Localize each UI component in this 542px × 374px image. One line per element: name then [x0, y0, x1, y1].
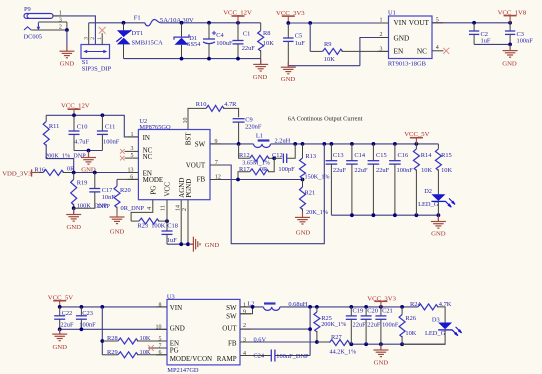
- C4 plus sign: [212, 32, 216, 34]
- junction R28 riser: [100, 339, 104, 343]
- junction R14 VCC_5V: [415, 142, 419, 146]
- junction OUT riser: [308, 305, 312, 309]
- junction C16 top: [393, 142, 397, 146]
- junction VOUT loop top: [322, 142, 326, 146]
- svg-text:C16: C16: [398, 152, 409, 159]
- junction C14 top: [350, 142, 354, 146]
- svg-text:R13: R13: [305, 153, 316, 160]
- svg-text:RT9013-18GB: RT9013-18GB: [388, 61, 426, 68]
- svg-text:6A Continous Output Current: 6A Continous Output Current: [288, 115, 363, 122]
- svg-text:1uF: 1uF: [481, 38, 491, 45]
- U3 PG pin7 stub: [148, 347, 167, 349]
- junction PGND: [186, 242, 190, 246]
- svg-text:0R_DNP: 0R_DNP: [121, 205, 145, 212]
- wire U1 ground rail: [288, 65, 360, 67]
- junction P9 pin2-pin3: [65, 28, 69, 32]
- svg-text:GND: GND: [60, 60, 75, 67]
- junction C13 top: [330, 142, 334, 146]
- wire U2 SW to L1: [210, 143, 254, 145]
- svg-text:EN: EN: [394, 47, 404, 56]
- svg-text:NC: NC: [143, 153, 153, 161]
- svg-text:P9: P9: [24, 6, 31, 13]
- svg-text:C1: C1: [243, 30, 250, 37]
- svg-text:22uF: 22uF: [376, 167, 390, 174]
- junction C15 top: [372, 142, 376, 146]
- svg-text:C22: C22: [62, 310, 73, 317]
- capacitor C24 100nF DNP: [270, 350, 272, 362]
- LED D3 LED_G: [438, 323, 452, 330]
- svg-text:GND: GND: [170, 325, 185, 333]
- P9 pin2 sleeve zigzag: [24, 27, 31, 30]
- svg-text:R29: R29: [107, 349, 118, 356]
- capacitor C4 100uF polarized: [208, 23, 210, 39]
- wire OUT riser to C24: [309, 307, 311, 356]
- svg-text:PGND: PGND: [185, 179, 193, 198]
- resistor R24 4.7K: [418, 304, 438, 310]
- svg-text:DT1: DT1: [132, 30, 144, 37]
- wire P9 pin1 to S1 pin2: [53, 16, 95, 45]
- junction C19 top: [349, 305, 353, 309]
- svg-text:4.7R: 4.7R: [224, 101, 237, 108]
- resistor R20 0R DNP: [116, 179, 118, 186]
- no-ERC X on U2 pin3: [120, 149, 125, 154]
- junction SW pins: [251, 305, 255, 309]
- wire U2 PG pin4 to R23: [131, 200, 153, 221]
- svg-text:L1: L1: [256, 132, 263, 139]
- svg-text:MODE/VCON: MODE/VCON: [170, 355, 212, 363]
- svg-text:GND: GND: [431, 231, 446, 238]
- svg-text:10K: 10K: [263, 40, 274, 47]
- wire input ground rail: [124, 58, 261, 60]
- svg-text:R26: R26: [405, 315, 416, 322]
- wire L2 to VCC_3V3 rail: [280, 306, 418, 308]
- junction C22 top: [58, 305, 62, 309]
- svg-text:VOUT: VOUT: [186, 161, 206, 169]
- svg-text:0.6V: 0.6V: [254, 337, 267, 344]
- wire U3 OUT pin2: [240, 328, 310, 330]
- svg-text:6: 6: [159, 350, 162, 356]
- svg-text:C23: C23: [82, 310, 93, 317]
- junction C21 bottom ground: [379, 342, 383, 346]
- junction C20 bottom: [364, 342, 368, 346]
- capacitor C16 100nF: [394, 144, 396, 161]
- svg-text:C10: C10: [77, 123, 88, 130]
- junction C2 top: [472, 21, 476, 25]
- svg-text:GND: GND: [374, 359, 389, 366]
- svg-text:GND: GND: [253, 74, 268, 81]
- svg-text:R15: R15: [441, 152, 452, 159]
- svg-text:SS54: SS54: [187, 41, 201, 48]
- svg-text:GND: GND: [296, 230, 311, 237]
- svg-text:2: 2: [243, 323, 246, 329]
- svg-text:D2: D2: [424, 188, 432, 195]
- junction R19 C17 ground: [72, 206, 76, 210]
- svg-text:C19: C19: [353, 307, 364, 314]
- no-ERC X above S1 pin1: [99, 27, 106, 34]
- junction C3 top VCC_1V8: [508, 21, 512, 25]
- wire EN net to U2 pin13: [74, 172, 139, 174]
- svg-text:100nF: 100nF: [517, 38, 534, 45]
- junction C20 top: [364, 305, 368, 309]
- S1 pin 3 lead: [88, 23, 90, 45]
- svg-text:10K: 10K: [441, 167, 452, 174]
- regulator U1 RT9013-18GB body: [389, 16, 433, 59]
- junction C23 bottom: [80, 327, 84, 331]
- resistor R12 3.65M: [239, 144, 250, 158]
- svg-text:U3: U3: [167, 293, 175, 300]
- junction C11 top: [101, 113, 105, 117]
- ground symbol under R19: [73, 208, 75, 214]
- svg-text:GND: GND: [281, 76, 296, 83]
- resistor R11 200K DNP: [45, 115, 47, 121]
- junction R25 R27 FB: [315, 340, 319, 344]
- capacitor C11 100nF: [101, 115, 103, 131]
- junction C22 bottom: [58, 327, 62, 331]
- capacitor C2 1uF: [473, 23, 475, 31]
- junction C5 top: [286, 21, 290, 25]
- junction EN pullup riser: [100, 305, 104, 309]
- svg-text:200K_1%_DNP: 200K_1%_DNP: [45, 153, 86, 160]
- svg-text:44.2K_1%: 44.2K_1%: [330, 348, 357, 355]
- svg-text:4.7K: 4.7K: [439, 301, 452, 308]
- junction AGND: [179, 242, 183, 246]
- junction D2 ground: [437, 213, 441, 217]
- junction C9 SW: [237, 142, 241, 146]
- capacitor C21 100nF: [380, 307, 382, 316]
- svg-text:DNP: DNP: [97, 203, 110, 210]
- svg-text:8: 8: [159, 302, 162, 308]
- junction R13 R21 FB: [301, 178, 305, 182]
- resistor R14 10K: [415, 144, 417, 149]
- junction C1 VCC_12V: [236, 21, 240, 25]
- svg-text:OUT: OUT: [222, 325, 237, 333]
- junction R26 bottom: [400, 342, 404, 346]
- svg-text:SW: SW: [226, 304, 237, 312]
- resistor R15 10K: [437, 144, 439, 149]
- wire VCC_12V rail to U2 IN: [46, 115, 138, 137]
- junction R19 EN: [72, 171, 76, 175]
- ground symbol under C5: [287, 66, 289, 68]
- capacitor C1 22uF: [237, 23, 239, 41]
- capacitor C19 22uF: [350, 307, 352, 316]
- svg-text:5: 5: [159, 337, 162, 343]
- svg-text:VDD_3V3: VDD_3V3: [2, 171, 32, 178]
- svg-text:4.7uF: 4.7uF: [74, 139, 89, 146]
- svg-text:4: 4: [147, 207, 153, 210]
- svg-text:BST: BST: [184, 132, 192, 146]
- D3 emission arrows: [452, 330, 458, 336]
- svg-text:GND: GND: [110, 229, 125, 236]
- wire C10 C11 ground: [74, 150, 102, 152]
- svg-text:SIP3S_DIP: SIP3S_DIP: [82, 65, 112, 72]
- resistor R25 200K: [316, 307, 318, 312]
- junction R14 bottom: [415, 213, 419, 217]
- svg-text:R8: R8: [263, 30, 270, 37]
- wire VCC_3V3 to U1 VIN: [288, 22, 388, 24]
- junction R26 top: [400, 305, 404, 309]
- U2 NC pin3 stub: [125, 150, 139, 152]
- svg-text:U1: U1: [388, 9, 396, 16]
- capacitor C12 100pF: [274, 157, 282, 159]
- svg-text:100nF_DNP: 100nF_DNP: [276, 353, 309, 360]
- svg-text:NC: NC: [417, 47, 427, 56]
- svg-text:3: 3: [83, 37, 89, 40]
- ground symbol under C22: [59, 329, 61, 334]
- svg-text:VIN: VIN: [170, 304, 182, 312]
- junction R13 top: [301, 142, 305, 146]
- capacitor C3 100nF: [509, 23, 511, 31]
- svg-text:LED_G: LED_G: [425, 330, 446, 337]
- junction C1 bottom: [236, 57, 240, 61]
- capacitor C22 22uF: [59, 307, 61, 316]
- junction C15 bottom: [372, 213, 376, 217]
- diode D1 SS54: [181, 23, 183, 37]
- resistor R8 10K: [260, 23, 262, 31]
- S1 pin 1 stub with no-connect: [101, 33, 103, 44]
- svg-text:22uF: 22uF: [354, 167, 368, 174]
- svg-text:VOUT: VOUT: [409, 18, 430, 27]
- svg-text:VCC: VCC: [163, 182, 171, 197]
- svg-text:R12: R12: [239, 152, 250, 159]
- svg-text:4: 4: [436, 45, 439, 51]
- svg-text:R27: R27: [331, 334, 342, 341]
- svg-text:22uF: 22uF: [333, 167, 347, 174]
- junction C19 bottom R27: [349, 342, 353, 346]
- wire U2 PGND pin2 drop: [187, 200, 189, 245]
- svg-text:7: 7: [159, 343, 162, 349]
- svg-text:SW: SW: [226, 312, 237, 320]
- svg-text:R28: R28: [107, 335, 118, 342]
- svg-text:22uF: 22uF: [60, 322, 74, 329]
- junction D1 top: [180, 21, 184, 25]
- wire U1 VOUT to VCC_1V8: [432, 22, 510, 24]
- svg-text:100nF: 100nF: [382, 321, 399, 328]
- svg-text:R19: R19: [77, 180, 88, 187]
- fuse F1 body: [145, 20, 161, 26]
- wire U2 MODE pin6 to R20: [117, 178, 138, 180]
- svg-text:R9: R9: [324, 41, 331, 48]
- ground symbol sideways U2: [189, 243, 194, 245]
- ground symbol under R21: [302, 212, 304, 217]
- svg-text:1uF: 1uF: [167, 237, 177, 244]
- wire U3 GND pin10 rail: [60, 328, 167, 330]
- svg-text:10K: 10K: [421, 167, 432, 174]
- resistor R27 44.2K: [317, 341, 330, 343]
- capacitor C17 10nF DNP: [94, 173, 96, 189]
- ground symbol under R20: [116, 212, 118, 217]
- svg-text:SW: SW: [195, 140, 206, 148]
- junction C23 top: [80, 305, 84, 309]
- junction C14 bottom: [350, 213, 354, 217]
- svg-text:100K: 100K: [151, 222, 166, 229]
- svg-text:9: 9: [243, 310, 246, 316]
- junction C21 top VCC_3V3: [379, 305, 383, 309]
- capacitor C20 22uF: [365, 307, 367, 316]
- svg-text:R10: R10: [196, 101, 207, 108]
- converter U2 MP8765GQ body: [138, 130, 210, 200]
- svg-text:C13: C13: [333, 152, 344, 159]
- svg-text:R14: R14: [421, 152, 432, 159]
- svg-text:GND: GND: [394, 33, 410, 42]
- wire 3V3 ground rail: [351, 343, 445, 345]
- svg-text:100nF: 100nF: [103, 139, 120, 146]
- wire U2 VCC pin11 drop: [166, 200, 168, 221]
- svg-text:GND: GND: [52, 344, 67, 351]
- svg-text:22uF: 22uF: [353, 321, 367, 328]
- no-ERC X on U1 pin4: [443, 48, 449, 54]
- svg-text:14: 14: [175, 205, 181, 211]
- svg-text:C5: C5: [295, 33, 302, 40]
- resistor R29 10K: [102, 354, 118, 356]
- junction R23 C18 VCC: [165, 219, 169, 223]
- svg-text:MP2147GD: MP2147GD: [167, 367, 199, 374]
- svg-text:2: 2: [182, 208, 188, 211]
- svg-text:22uF: 22uF: [242, 45, 256, 52]
- svg-text:R11: R11: [49, 123, 59, 130]
- LED D2 LED_G: [431, 194, 445, 201]
- ground symbol under D2: [437, 215, 439, 221]
- wire output capacitor ground rail: [331, 214, 438, 216]
- U2 pin stubs gray: [128, 136, 139, 138]
- svg-text:C11: C11: [105, 123, 115, 130]
- capacitor C18 1uF: [166, 221, 168, 231]
- svg-text:22uF: 22uF: [367, 321, 381, 328]
- resistor R9 10K: [309, 23, 311, 51]
- junction C4 bottom: [207, 57, 211, 61]
- svg-text:1: 1: [97, 37, 103, 40]
- junction C4 top: [207, 21, 211, 25]
- junction DT1 top: [122, 21, 126, 25]
- ground symbol under C21: [380, 344, 382, 350]
- capacitor C10 4.7uF: [73, 115, 75, 131]
- svg-text:C15: C15: [376, 152, 387, 159]
- U2 NC pin5 stub: [125, 157, 139, 159]
- U1 NC pin stub: [432, 50, 443, 52]
- svg-text:DC005: DC005: [24, 34, 42, 41]
- junction C3 bottom: [508, 43, 512, 47]
- svg-text:MODE: MODE: [143, 176, 164, 184]
- svg-text:SMBJ15CA: SMBJ15CA: [132, 39, 164, 46]
- svg-text:100uF: 100uF: [216, 40, 233, 47]
- svg-text:C4: C4: [216, 32, 224, 39]
- svg-text:F1: F1: [134, 14, 141, 21]
- junction R9 top: [308, 21, 312, 25]
- junction OUT pin: [308, 327, 312, 331]
- svg-text:MP8765GQ: MP8765GQ: [139, 124, 171, 131]
- TVS diode DT1 SMBJ15CA: [123, 23, 125, 30]
- wire C2 C3 ground: [474, 43, 510, 45]
- svg-text:2: 2: [90, 37, 96, 40]
- svg-text:GND: GND: [205, 242, 220, 249]
- wire analog ground run: [167, 243, 193, 245]
- converter U3 MP2147GD body: [167, 299, 240, 365]
- svg-text:4: 4: [243, 351, 246, 357]
- no-ERC X on U3 pin7: [148, 345, 154, 351]
- capacitor C15 22uF: [372, 144, 374, 161]
- capacitor C9 220nF bootstrap: [233, 118, 245, 120]
- svg-text:LED_G: LED_G: [418, 201, 439, 208]
- wire U3 SW pin9 jog: [240, 307, 253, 314]
- resistor R28 10K: [102, 340, 118, 342]
- wire U3 SW pin1: [240, 306, 264, 308]
- svg-text:0R: 0R: [260, 166, 268, 173]
- U1 pin stubs gray: [378, 22, 389, 24]
- junction R17 FB: [236, 178, 240, 182]
- wire U1 GND pin to ground: [360, 38, 389, 66]
- svg-text:VIN: VIN: [394, 18, 408, 27]
- resistor R16 0R: [39, 172, 43, 174]
- resistor R10 4.7R bootstrap: [188, 108, 206, 129]
- svg-text:C18: C18: [167, 222, 178, 229]
- svg-text:150K_1%: 150K_1%: [305, 173, 330, 180]
- svg-text:100nF: 100nF: [397, 167, 414, 174]
- svg-text:C24: C24: [253, 352, 264, 359]
- svg-text:220nF: 220nF: [245, 123, 262, 130]
- wire U2 AGND pin14 drop: [180, 200, 182, 245]
- wire U2 VOUT sense loop: [210, 144, 324, 244]
- svg-text:FB: FB: [228, 339, 237, 347]
- wire P9 pin2 horizontal: [31, 29, 67, 31]
- ground symbol under C3: [509, 44, 511, 50]
- junction D1 bottom: [180, 57, 184, 61]
- svg-text:PG: PG: [170, 346, 179, 354]
- wire U2 FB net: [210, 179, 303, 181]
- switch S1 SIP3S_DIP body: [81, 45, 110, 59]
- svg-text:100pF: 100pF: [278, 166, 295, 173]
- resistor R13 150K: [302, 144, 304, 158]
- wire VCC_5V to U3 VIN: [60, 306, 167, 308]
- resistor R19 100K DNP: [73, 173, 75, 180]
- inductor L2 0.68uH: [264, 302, 276, 304]
- svg-text:C21: C21: [382, 307, 393, 314]
- svg-text:RAMP: RAMP: [217, 355, 237, 363]
- svg-text:R21: R21: [305, 189, 316, 196]
- svg-text:R16: R16: [34, 166, 45, 173]
- junction C12 top: [293, 142, 297, 146]
- svg-text:10K: 10K: [324, 56, 335, 63]
- svg-text:GND: GND: [502, 60, 517, 67]
- svg-text:C20: C20: [367, 307, 378, 314]
- wire EN MODE pullup riser: [101, 307, 103, 355]
- junction C17 EN: [93, 171, 97, 175]
- no-ERC X on U2 pin5: [120, 156, 125, 161]
- D2 emission arrows: [445, 201, 451, 207]
- svg-text:11: 11: [161, 205, 167, 211]
- svg-text:C14: C14: [354, 152, 365, 159]
- wire P9 pin3 horizontal: [38, 21, 67, 23]
- svg-text:C12: C12: [272, 152, 283, 159]
- capacitor C23 100nF: [80, 307, 82, 316]
- junction C16 bottom: [393, 213, 397, 217]
- wire U3 RAMP pin4 to C24: [240, 355, 271, 357]
- connector P9 DC005 barrel jack: [24, 14, 53, 19]
- S1 double arrow: [86, 51, 106, 53]
- junction R25 top: [315, 305, 319, 309]
- junction R12 C12 R17 node: [272, 156, 276, 160]
- svg-text:R17: R17: [239, 166, 250, 173]
- ground symbol under P9: [66, 46, 68, 51]
- P9 pin3 switch arrow: [37, 23, 39, 28]
- junction decoupling ground: [87, 149, 91, 153]
- resistor R23 100K: [131, 220, 139, 222]
- svg-text:D3: D3: [432, 316, 440, 323]
- svg-text:10K: 10K: [140, 335, 151, 342]
- capacitor C5 1uF: [287, 23, 289, 38]
- resistor R21 20K: [302, 180, 304, 188]
- svg-text:10K: 10K: [405, 330, 416, 337]
- U3 pin stubs gray: [156, 306, 167, 308]
- ground symbol input rail: [260, 59, 262, 65]
